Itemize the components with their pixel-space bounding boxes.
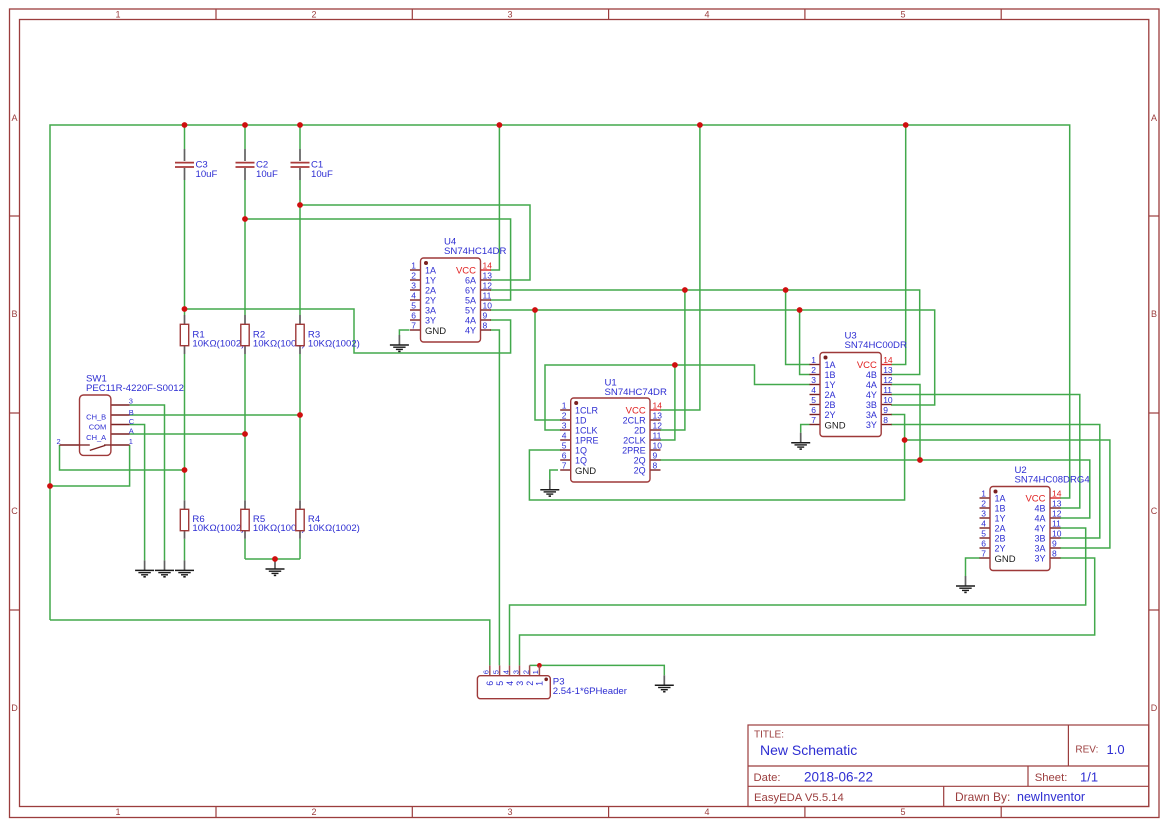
wire 1CLK net U1 pin3 to U3 pin3: [545, 365, 810, 430]
wire R3 bottom to R4 top: [299, 354, 301, 500]
wire SW1 pin3 to ground: [130, 405, 165, 560]
wire R4 bottom down: [299, 539, 301, 559]
wire U3 pin8 to U2 pin10: [891, 425, 1100, 539]
svg-text:2CLK: 2CLK: [623, 436, 646, 446]
capacitor C3: [175, 149, 218, 180]
svg-text:VCC: VCC: [857, 360, 877, 371]
svg-text:1PRE: 1PRE: [575, 436, 599, 446]
svg-text:10KΩ(1002): 10KΩ(1002): [192, 338, 244, 349]
svg-text:10: 10: [883, 395, 893, 405]
svg-text:10KΩ(1002): 10KΩ(1002): [308, 523, 360, 534]
wire R5 bottom down: [244, 539, 246, 559]
svg-text:4: 4: [811, 385, 816, 395]
svg-text:4: 4: [562, 431, 567, 441]
wire U2 pin7 to ground: [966, 558, 981, 576]
wire SW1 COM to ground: [130, 425, 145, 561]
svg-text:1: 1: [535, 681, 545, 686]
ground under SW1 (COM): [135, 560, 154, 576]
svg-text:2CLR: 2CLR: [623, 416, 647, 426]
svg-text:C: C: [11, 506, 18, 516]
ruler ticks right: [1149, 216, 1159, 610]
svg-text:7: 7: [411, 321, 416, 331]
svg-text:12: 12: [483, 281, 493, 291]
svg-text:3A: 3A: [425, 306, 436, 316]
node 2CLK branch: [672, 362, 678, 368]
wire U4 pin8 to P3 pin5: [490, 330, 499, 665]
svg-text:D: D: [11, 703, 18, 713]
switch SW1: [57, 374, 184, 456]
svg-text:3: 3: [811, 375, 816, 385]
ground under R6: [175, 560, 194, 576]
node U3 1B branch: [797, 307, 803, 313]
svg-text:3: 3: [562, 421, 567, 431]
svg-text:TITLE:: TITLE:: [754, 730, 784, 741]
svg-text:1/1: 1/1: [1080, 769, 1098, 784]
svg-text:14: 14: [1052, 489, 1062, 499]
svg-text:COM: COM: [89, 423, 107, 432]
wire R2 bottom to R5 top: [244, 354, 246, 500]
svg-text:1.0: 1.0: [1107, 742, 1125, 757]
svg-text:6A: 6A: [465, 276, 476, 286]
svg-text:2Y: 2Y: [825, 410, 836, 420]
svg-text:1A: 1A: [995, 494, 1006, 504]
svg-text:4Y: 4Y: [866, 390, 877, 400]
svg-text:5Y: 5Y: [465, 306, 476, 316]
wire branch to U3 pin12: [891, 385, 920, 461]
svg-text:3Y: 3Y: [866, 420, 877, 430]
wire C2 bottom to R2 top: [244, 180, 246, 315]
svg-text:CH_A: CH_A: [86, 433, 106, 442]
svg-text:4B: 4B: [1034, 504, 1045, 514]
wire VCC col C1 upper: [299, 125, 301, 149]
svg-text:VCC: VCC: [456, 266, 476, 277]
svg-text:4B: 4B: [866, 370, 877, 380]
resistor R5: [241, 500, 305, 539]
svg-text:12: 12: [653, 421, 663, 431]
svg-text:Date:: Date:: [754, 772, 781, 784]
svg-text:12: 12: [1052, 509, 1062, 519]
svg-text:A: A: [11, 113, 17, 123]
svg-text:2PRE: 2PRE: [622, 446, 646, 456]
svg-text:C: C: [129, 417, 135, 426]
wire U4 pin10 net to U3 pin10: [490, 310, 935, 405]
svg-text:1: 1: [129, 437, 133, 446]
svg-text:6: 6: [485, 681, 495, 686]
svg-text:3Y: 3Y: [1034, 554, 1045, 564]
node R1 bottom: [182, 467, 188, 473]
svg-text:13: 13: [883, 365, 893, 375]
svg-text:4: 4: [505, 681, 515, 686]
node U4 5Y branch: [532, 307, 538, 313]
svg-text:2B: 2B: [825, 400, 836, 410]
svg-text:14: 14: [883, 355, 893, 365]
svg-text:2: 2: [811, 365, 816, 375]
capacitor C1: [291, 149, 334, 180]
svg-text:1: 1: [411, 261, 416, 271]
svg-text:5: 5: [562, 441, 567, 451]
svg-text:5: 5: [495, 681, 505, 686]
node net A R2: [242, 431, 248, 437]
svg-text:D: D: [1151, 703, 1158, 713]
svg-text:4A: 4A: [866, 380, 877, 390]
svg-text:1A: 1A: [825, 360, 836, 370]
svg-text:1Y: 1Y: [425, 276, 436, 286]
ground U4: [390, 335, 409, 351]
svg-text:5: 5: [411, 301, 416, 311]
svg-text:2018-06-22: 2018-06-22: [804, 769, 873, 784]
svg-text:3B: 3B: [1034, 534, 1045, 544]
wire VCC col C2 upper: [244, 125, 246, 149]
svg-text:1CLR: 1CLR: [575, 406, 599, 416]
svg-text:5: 5: [900, 807, 905, 817]
wire C2 to U4 pin11: [245, 219, 511, 300]
svg-text:14: 14: [653, 401, 663, 411]
wire VCC col C3 upper: [184, 125, 186, 149]
svg-text:1Y: 1Y: [995, 514, 1006, 524]
svg-text:GND: GND: [825, 421, 846, 432]
svg-text:13: 13: [653, 411, 663, 421]
svg-text:9: 9: [653, 451, 658, 461]
ground P3: [655, 675, 674, 691]
svg-text:EasyEDA V5.5.14: EasyEDA V5.5.14: [754, 792, 844, 804]
wire branch to U1 pin2: [535, 310, 561, 420]
node C1 branch: [297, 202, 303, 208]
svg-text:Sheet:: Sheet:: [1035, 772, 1068, 784]
svg-text:3: 3: [129, 397, 133, 406]
svg-text:newInventor: newInventor: [1017, 790, 1085, 804]
ruler ticks top: [216, 9, 1001, 20]
node net B R3: [297, 412, 303, 418]
svg-text:3A: 3A: [866, 410, 877, 420]
svg-text:6: 6: [981, 539, 986, 549]
svg-text:New Schematic: New Schematic: [760, 742, 857, 758]
node C1 top: [297, 122, 303, 128]
wire U2 pin11 to P3 pin4: [510, 528, 1086, 665]
node R5 R4 gnd: [272, 556, 278, 562]
node U3 1A branch: [783, 287, 789, 293]
svg-text:11: 11: [1052, 519, 1061, 529]
wire branch to U1 pin11: [660, 365, 675, 440]
svg-text:2: 2: [562, 411, 567, 421]
svg-text:GND: GND: [425, 326, 446, 337]
svg-text:10KΩ(1002): 10KΩ(1002): [308, 338, 360, 349]
wire VCC rail to P3 pin6: [50, 620, 490, 665]
wire C3 bottom to R1 top: [184, 180, 186, 315]
svg-text:3: 3: [515, 681, 525, 686]
wire R6 bottom to ground: [184, 539, 186, 561]
wire R1 bottom to R6 top: [184, 354, 186, 500]
svg-text:1Q: 1Q: [575, 446, 587, 456]
node U3 4A branch: [917, 457, 923, 463]
svg-text:5A: 5A: [465, 296, 476, 306]
wire U1 pin5 1Q to U3 pin9: [529, 415, 904, 501]
svg-text:4: 4: [411, 291, 416, 301]
svg-text:6: 6: [811, 405, 816, 415]
svg-text:2A: 2A: [995, 524, 1006, 534]
resistor R6: [180, 500, 244, 539]
svg-text:6: 6: [411, 311, 416, 321]
svg-text:1CLK: 1CLK: [575, 426, 598, 436]
svg-text:B: B: [11, 309, 17, 319]
svg-text:10uF: 10uF: [311, 169, 333, 180]
svg-text:2Q: 2Q: [634, 466, 646, 476]
svg-text:SN74HC08DRG4: SN74HC08DRG4: [1015, 475, 1091, 486]
svg-text:3: 3: [507, 807, 512, 817]
wire branch to U3 pin1: [786, 290, 810, 365]
wire R1 top to U4 pin9: [185, 309, 511, 353]
svg-text:2: 2: [311, 807, 316, 817]
node R1 top: [182, 306, 188, 312]
op-amp U3 SN74HC00DR: [810, 331, 907, 437]
svg-text:4: 4: [501, 670, 510, 674]
svg-text:GND: GND: [995, 554, 1016, 565]
svg-text:SN74HC74DR: SN74HC74DR: [605, 387, 667, 398]
svg-text:SN74HC00DR: SN74HC00DR: [845, 340, 907, 351]
ruler ticks bottom: [216, 807, 1001, 818]
wire P3 pin2 pin1 to ground: [530, 665, 665, 675]
svg-text:7: 7: [811, 415, 816, 425]
svg-text:4A: 4A: [465, 316, 476, 326]
svg-text:2A: 2A: [425, 286, 436, 296]
wire C1 bottom to R3 top: [299, 180, 301, 315]
svg-text:14: 14: [483, 261, 493, 271]
svg-text:Drawn By:: Drawn By:: [955, 790, 1010, 804]
svg-text:6Y: 6Y: [465, 286, 476, 296]
svg-text:10: 10: [483, 301, 493, 311]
ruler ticks left: [10, 216, 20, 610]
svg-text:4Y: 4Y: [465, 326, 476, 336]
wire R5-R4 ground bar: [245, 558, 300, 560]
svg-text:11: 11: [883, 385, 892, 395]
node U1 VCC rail: [697, 122, 703, 128]
svg-text:4Y: 4Y: [1034, 524, 1045, 534]
svg-text:13: 13: [483, 271, 493, 281]
svg-text:8: 8: [653, 461, 658, 471]
wire net A SW1 CH_A to R2 column: [130, 433, 245, 435]
svg-text:VCC: VCC: [1025, 494, 1045, 505]
node SW1 pin1 VCC: [47, 483, 53, 489]
svg-text:1: 1: [562, 401, 567, 411]
svg-text:1A: 1A: [425, 266, 436, 276]
wire U1 pin14 VCC riser: [660, 125, 700, 410]
ground U1: [540, 480, 559, 496]
resistor R4: [296, 500, 360, 539]
svg-text:3B: 3B: [866, 400, 877, 410]
wire U1 pin7 to ground: [550, 470, 558, 480]
svg-text:VCC: VCC: [626, 406, 646, 417]
svg-text:2.54-1*6PHeader: 2.54-1*6PHeader: [553, 686, 628, 697]
svg-text:2: 2: [981, 499, 986, 509]
wire U3 pin7 to ground: [801, 425, 810, 433]
svg-text:5: 5: [981, 529, 986, 539]
svg-text:9: 9: [1052, 539, 1057, 549]
wire U4 pin12 net to U3 pin13: [490, 290, 920, 375]
wire U3 pin14 VCC riser: [891, 125, 906, 365]
svg-text:PEC11R-4220F-S0012: PEC11R-4220F-S0012: [86, 383, 184, 394]
wire SW1 pin1 to VCC left rail: [50, 445, 130, 486]
svg-text:11: 11: [653, 431, 662, 441]
wire SW1 pin2 to R1 bottom: [60, 445, 185, 470]
svg-text:1: 1: [115, 807, 120, 817]
wire U2 pin8 to P3 pin3: [520, 558, 1095, 665]
resistor R1: [180, 315, 244, 354]
svg-text:13: 13: [1052, 499, 1062, 509]
svg-text:5: 5: [491, 670, 500, 674]
resistor R2: [241, 315, 305, 354]
svg-text:A: A: [129, 427, 134, 436]
resistor R3: [296, 315, 360, 354]
svg-text:8: 8: [483, 321, 488, 331]
svg-text:2: 2: [57, 437, 61, 446]
svg-text:4A: 4A: [1034, 514, 1045, 524]
svg-text:1: 1: [811, 355, 816, 365]
svg-text:10: 10: [653, 441, 663, 451]
svg-text:2Y: 2Y: [425, 296, 436, 306]
wire C1 to U4 pin13: [300, 205, 530, 280]
svg-text:2A: 2A: [825, 390, 836, 400]
svg-text:3Y: 3Y: [425, 316, 436, 326]
svg-text:11: 11: [483, 291, 492, 301]
node U3 VCC rail: [903, 122, 909, 128]
wire U4 pin14 VCC riser: [490, 125, 499, 270]
svg-text:10uF: 10uF: [196, 169, 218, 180]
wire U4 pin7 to ground: [399, 330, 409, 335]
svg-text:10KΩ(1002): 10KΩ(1002): [192, 523, 244, 534]
svg-text:3: 3: [507, 10, 512, 20]
ground U3: [791, 433, 810, 449]
svg-text:10: 10: [1052, 529, 1062, 539]
node C3 top: [182, 122, 188, 128]
svg-text:2D: 2D: [634, 426, 646, 436]
svg-text:B: B: [129, 408, 134, 417]
node U1 2D branch: [682, 287, 688, 293]
svg-text:2Q: 2Q: [634, 456, 646, 466]
svg-text:1Q: 1Q: [575, 456, 587, 466]
ground U2: [956, 576, 975, 592]
node C2 branch: [242, 216, 248, 222]
svg-text:REV:: REV:: [1075, 745, 1098, 756]
svg-text:8: 8: [883, 415, 888, 425]
svg-text:GND: GND: [575, 466, 596, 477]
svg-text:6: 6: [482, 670, 491, 674]
svg-text:6: 6: [562, 451, 567, 461]
svg-text:CH_B: CH_B: [86, 413, 106, 422]
wire branch to U3 pin2: [800, 310, 810, 375]
svg-text:1B: 1B: [995, 504, 1006, 514]
node P3 pin1: [537, 663, 542, 668]
svg-text:2B: 2B: [995, 534, 1006, 544]
connector P3: [477, 665, 627, 698]
node U4 VCC rail: [497, 122, 503, 128]
svg-text:B: B: [1151, 309, 1157, 319]
ground under SW1 (pin3): [155, 560, 174, 576]
svg-text:9: 9: [883, 405, 888, 415]
svg-text:5: 5: [811, 395, 816, 405]
ground under R5 R4: [266, 559, 285, 575]
wire VCC rail: left drop, top rail, right drop to U2 pin14: [50, 125, 1070, 620]
svg-text:2Y: 2Y: [995, 544, 1006, 554]
svg-text:1D: 1D: [575, 416, 587, 426]
svg-text:2: 2: [311, 10, 316, 20]
op-amp U1 SN74HC74DR: [560, 378, 667, 483]
svg-text:5: 5: [900, 10, 905, 20]
svg-text:C: C: [1151, 506, 1158, 516]
svg-text:SN74HC14DR: SN74HC14DR: [444, 246, 506, 257]
wire U3 pin9 3A to U2 pin9: [905, 440, 1110, 548]
svg-text:1B: 1B: [825, 370, 836, 380]
op-amp U4 SN74HC14DR: [410, 237, 506, 343]
capacitor C2: [236, 149, 279, 180]
svg-text:3: 3: [411, 281, 416, 291]
op-amp U2 SN74HC08DRG4: [980, 465, 1091, 571]
svg-text:4: 4: [704, 10, 709, 20]
svg-text:4: 4: [704, 807, 709, 817]
svg-text:1: 1: [115, 10, 120, 20]
svg-text:A: A: [1151, 113, 1157, 123]
wire U3 pin11 to U2 pin13: [891, 395, 1080, 509]
node U3 3A branch: [902, 437, 908, 443]
wire net B SW1 CH_B to R3 column: [130, 414, 300, 416]
node C2 top: [242, 122, 248, 128]
svg-text:7: 7: [562, 461, 567, 471]
svg-text:3: 3: [511, 670, 520, 674]
wire U1 pin9 2Q to U2 pin12: [660, 460, 1090, 518]
svg-text:2: 2: [521, 670, 530, 674]
svg-text:2: 2: [411, 271, 416, 281]
svg-text:12: 12: [883, 375, 893, 385]
svg-text:1Y: 1Y: [825, 380, 836, 390]
wire branch to U1 pin12: [660, 290, 685, 430]
svg-text:8: 8: [1052, 549, 1057, 559]
svg-text:4: 4: [981, 519, 986, 529]
svg-text:1: 1: [531, 670, 540, 674]
svg-text:10uF: 10uF: [256, 169, 278, 180]
svg-text:3: 3: [981, 509, 986, 519]
svg-text:2: 2: [525, 681, 535, 686]
svg-text:1: 1: [981, 489, 986, 499]
svg-text:7: 7: [981, 549, 986, 559]
svg-text:3A: 3A: [1034, 544, 1045, 554]
svg-text:9: 9: [483, 311, 488, 321]
